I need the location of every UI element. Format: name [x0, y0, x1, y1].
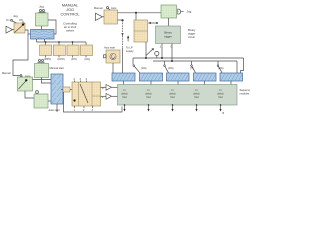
svg-text:Manual: Manual [2, 71, 11, 75]
svg-text:To LP: To LP [126, 46, 133, 50]
svg-text:(test): (test) [218, 92, 224, 96]
svg-text:(10s): (10s) [141, 67, 147, 70]
svg-text:(test): (test) [122, 92, 128, 96]
svg-text:trigger: trigger [188, 32, 195, 36]
svg-text:Manual start: Manual start [50, 66, 65, 70]
svg-text:Manual: Manual [94, 6, 103, 10]
svg-text:(test): (test) [194, 92, 200, 96]
svg-text:(7f): (7f) [190, 67, 194, 70]
svg-text:circuit: circuit [188, 35, 195, 39]
svg-text:(10s): (10s) [168, 67, 174, 70]
svg-text:On: On [6, 18, 10, 22]
svg-text:trigger: trigger [164, 35, 172, 39]
svg-text:Off: Off [19, 18, 23, 22]
svg-text:(test): (test) [146, 92, 152, 96]
svg-text:(25Hz): (25Hz) [44, 58, 51, 61]
svg-text:Jog: Jog [39, 5, 44, 9]
svg-text:Out: Out [170, 95, 174, 99]
svg-text:(test): (test) [170, 92, 176, 96]
svg-text:modules: modules [240, 92, 251, 96]
svg-text:CONTROL: CONTROL [60, 12, 80, 17]
svg-text:Out: Out [194, 95, 198, 99]
svg-text:Auto: Auto [111, 6, 117, 10]
svg-text:Auto start: Auto start [104, 46, 115, 50]
svg-text:Out: Out [218, 95, 222, 99]
svg-text:(1Hz): (1Hz) [71, 58, 77, 61]
svg-text:supply: supply [126, 49, 134, 53]
svg-text:(10s): (10s) [85, 58, 91, 61]
svg-text:Jog: Jog [187, 10, 192, 14]
svg-text:Out: Out [122, 95, 126, 99]
svg-text:Out: Out [146, 95, 150, 99]
svg-text:valves: valves [66, 29, 75, 33]
svg-text:Binary: Binary [164, 31, 172, 35]
svg-text:(10Hz): (10Hz) [58, 58, 65, 61]
svg-text:Auto start: Auto start [49, 108, 60, 112]
svg-text:Sequence: Sequence [240, 88, 251, 92]
svg-text:Jog: Jog [13, 14, 18, 18]
svg-text:Binary: Binary [188, 28, 196, 32]
svg-text:(10s): (10s) [218, 67, 224, 70]
